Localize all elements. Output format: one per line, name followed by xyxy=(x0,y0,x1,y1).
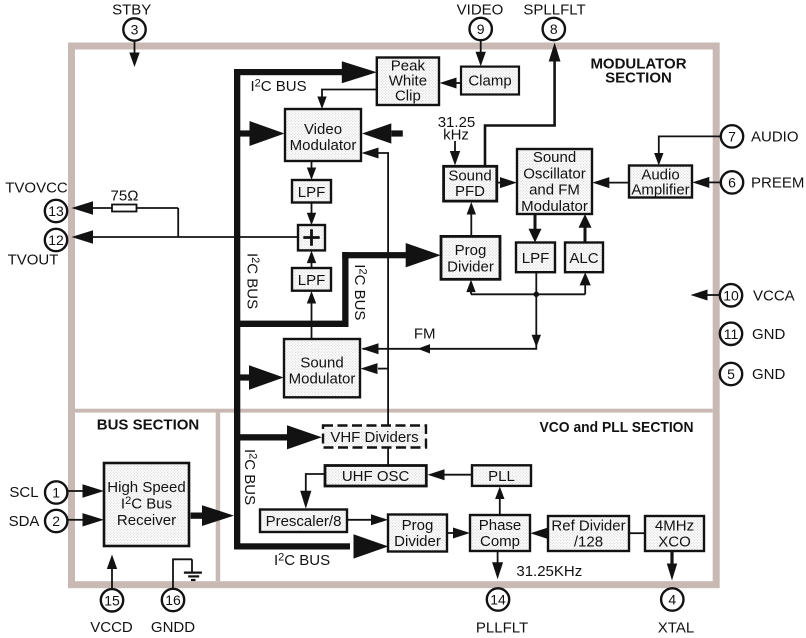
svg-text:Sound: Sound xyxy=(533,149,576,166)
wire: Sound PFD to Sound Oscillator xyxy=(497,182,501,184)
arrowhead: bus stub into Video Modulator right edge xyxy=(362,123,391,143)
block: 4MHz XCO xyxy=(645,516,704,551)
wire: 4MHz XCO to XTAL pin 4 (bold) xyxy=(670,551,673,566)
arrowhead: receiver output into trunk A xyxy=(202,505,234,526)
arrowhead: down into LPF top xyxy=(529,229,542,243)
arrowhead: Sound PFD into Sound Oscillator xyxy=(500,177,517,188)
wire: UHF OSC to Prescaler xyxy=(306,474,325,492)
svg-text:Video: Video xyxy=(304,121,342,138)
wire: I2C bus receiver output stub xyxy=(191,513,203,519)
arrowhead: into Prog Divider top bottom edge xyxy=(466,280,475,293)
arrowhead: Clamp into Peak White Clip xyxy=(440,78,457,89)
svg-text:I2C BUS: I2C BUS xyxy=(351,264,369,320)
pin 8 SPLLFLT xyxy=(523,2,585,41)
svg-text:I2C BUS: I2C BUS xyxy=(243,253,260,309)
svg-text:8: 8 xyxy=(550,21,558,37)
svg-text:VHF Dividers: VHF Dividers xyxy=(330,429,418,446)
svg-text:1: 1 xyxy=(52,485,60,501)
arrowhead: into adder top xyxy=(307,213,316,226)
svg-text:75Ω: 75Ω xyxy=(111,188,139,205)
pin 4 XTAL xyxy=(658,588,694,636)
arrowhead: Phase Comp down to pin 14 xyxy=(492,562,503,579)
svg-text:High Speed: High Speed xyxy=(107,479,185,496)
svg-text:Modulator: Modulator xyxy=(289,371,356,388)
arrowhead: down at FM corner xyxy=(532,335,541,348)
pin 16 GNDD xyxy=(151,589,195,636)
arrowhead: Ref Divider into Phase Comp xyxy=(530,528,547,539)
block: UHF OSC xyxy=(325,466,426,487)
wire: Phase Comp to PLL xyxy=(499,498,501,515)
block: Peak White Clip xyxy=(377,58,439,106)
svg-text:GNDD: GNDD xyxy=(151,619,195,636)
arrowhead: XCO down to pin 4 xyxy=(667,564,677,581)
wire: lower LPF to adder xyxy=(311,262,313,269)
arrowhead: FM mid-line left xyxy=(418,344,431,353)
svg-text:I2C BUS: I2C BUS xyxy=(251,78,307,96)
svg-text:TVOUT: TVOUT xyxy=(8,252,59,269)
wire: Prescaler to Prog Divider xyxy=(347,519,371,521)
wire: TVOVCC line with resistor branch xyxy=(92,208,178,237)
svg-text:Amplifier: Amplifier xyxy=(631,181,689,198)
pin 7 AUDIO xyxy=(721,125,799,147)
block: LPF lower xyxy=(292,268,331,291)
svg-text:Ref Divider: Ref Divider xyxy=(551,518,625,535)
pin 12 TVOUT xyxy=(8,229,68,269)
svg-text:Comp: Comp xyxy=(480,533,520,550)
svg-text:Oscillator: Oscillator xyxy=(523,165,586,182)
arrowhead: I2C bus into Prog Divider bottom xyxy=(354,534,389,558)
junction dot on feedback line xyxy=(534,292,540,298)
svg-text:VCCA: VCCA xyxy=(753,287,795,304)
arrowhead: carrier into Sound Modulator right xyxy=(361,363,378,374)
pin 15 VCCD xyxy=(90,589,133,636)
chip outline frame xyxy=(72,46,717,585)
wire: SDA pin 2 to receiver xyxy=(68,519,83,521)
arrowhead: Phase Comp into PLL bottom xyxy=(495,487,504,500)
block: adder xyxy=(298,225,325,250)
block: LPF sound xyxy=(516,243,555,273)
wire: STBY pin 3 into chip xyxy=(134,41,136,55)
arrowhead: into LPF top xyxy=(307,168,316,181)
wire: I2C bus trunk A vertical xyxy=(234,69,240,549)
arrowhead: I2C bus into Peak White Clip xyxy=(342,61,377,83)
wire: SPLLFLT from Sound PFD to pin 8 xyxy=(485,55,555,166)
wire: Sound Modulator to lower LPF xyxy=(311,303,313,340)
svg-text:Phase: Phase xyxy=(479,517,522,534)
wire: PREEM pin 6 to Audio Amplifier xyxy=(708,181,721,183)
arrowhead: pin 7 into Audio Amplifier top xyxy=(654,153,663,166)
block: PLL xyxy=(472,465,531,486)
wire: Ref Divider to 4MHz XCO xyxy=(629,532,645,534)
pin 14 PLLFLT xyxy=(476,588,528,636)
wire: Sound Oscillator to LPF (bold) xyxy=(534,214,537,230)
svg-text:14: 14 xyxy=(490,592,506,608)
svg-text:15: 15 xyxy=(104,592,120,608)
pin 9 VIDEO xyxy=(457,2,504,41)
wire: Phase Comp to PLLFLT pin 14 xyxy=(497,551,499,564)
svg-text:TVOVCC: TVOVCC xyxy=(5,180,68,197)
ground symbol for GNDD xyxy=(184,573,202,580)
svg-text:Prog: Prog xyxy=(455,242,487,259)
arrowhead: TVOVCC into pin 13 xyxy=(72,201,94,214)
svg-text:31.25KHz: 31.25KHz xyxy=(516,563,582,580)
wire: up into ALC bottom edge xyxy=(584,285,586,294)
wire: I2C bus stub into VHF Dividers xyxy=(240,434,287,440)
arrowhead: VCCD up into chip xyxy=(107,555,117,570)
pin 13 TVOVCC xyxy=(5,180,68,223)
svg-text:and FM: and FM xyxy=(529,182,580,199)
svg-text:VIDEO: VIDEO xyxy=(457,2,504,19)
arrowhead: PLL into UHF OSC xyxy=(428,469,445,480)
block: Prog Divider top xyxy=(441,236,500,279)
svg-text:/128: /128 xyxy=(574,534,603,551)
arrowhead: into adder bottom xyxy=(307,251,316,264)
svg-text:Modulator: Modulator xyxy=(290,137,357,154)
block: Sound Oscillator and FM Modulator xyxy=(517,149,592,215)
svg-text:GND: GND xyxy=(752,366,786,383)
wire: Prog Divider to Phase Comp xyxy=(447,532,453,534)
arrowhead: I2C bus into VHF Dividers xyxy=(287,425,322,449)
wire: up into Prog Divider bottom edge xyxy=(470,290,472,294)
arrowhead: Audio Amplifier into Sound Oscillator xyxy=(592,177,609,188)
arrowhead: I2C bus into Sound Modulator xyxy=(249,365,284,389)
pin 6 PREEM xyxy=(721,171,805,193)
svg-text:SECTION: SECTION xyxy=(605,70,672,87)
wire: I2C bus stub into Video Modulator xyxy=(240,130,251,136)
svg-text:SPLLFLT: SPLLFLT xyxy=(523,2,585,19)
svg-text:13: 13 xyxy=(48,203,64,219)
svg-text:VCO and PLL SECTION: VCO and PLL SECTION xyxy=(540,419,694,436)
wire: Peak White Clip to Video Modulator xyxy=(322,90,377,99)
arrowhead: carrier into Video Modulator right xyxy=(362,148,379,159)
pin 2 SDA xyxy=(9,510,68,532)
svg-text:XCO: XCO xyxy=(658,534,691,551)
wire: Ref Divider to Phase Comp xyxy=(547,532,549,534)
wire: VCCD pin 15 into chip xyxy=(111,567,113,589)
svg-text:PREEM: PREEM xyxy=(751,175,804,192)
svg-text:BUS SECTION: BUS SECTION xyxy=(97,417,200,434)
wire: VIDEO pin 9 to Clamp xyxy=(480,41,482,56)
wire: UHF OSC feedback line to modulators xyxy=(378,153,388,466)
block: Ref Divider /128 xyxy=(548,516,629,551)
resistor 75 ohm xyxy=(112,205,137,212)
pin 1 SCL xyxy=(9,481,67,503)
svg-text:10: 10 xyxy=(723,287,739,303)
svg-text:Modulator: Modulator xyxy=(521,198,588,215)
block: ALC xyxy=(565,243,603,273)
arrowhead: I2C bus into Prog Divider top xyxy=(406,243,441,267)
arrowhead: TVOUT into pin 12 xyxy=(72,230,94,243)
section divider vertical xyxy=(216,413,221,581)
arrowhead: into ALC bottom edge xyxy=(580,272,591,285)
svg-text:LPF: LPF xyxy=(522,250,550,267)
arrowhead: into lower LPF bottom xyxy=(307,291,316,304)
svg-text:16: 16 xyxy=(165,592,181,608)
svg-text:ALC: ALC xyxy=(569,250,598,267)
wire: PLL to UHF OSC xyxy=(445,474,473,476)
block: Prog Divider bottom xyxy=(388,515,447,552)
block: Video Modulator U-VM xyxy=(285,109,361,161)
wire: SCL pin 1 to receiver xyxy=(68,490,83,492)
arrowhead: pin 6 into Audio Amplifier right xyxy=(692,177,709,188)
svg-text:Prescaler/8: Prescaler/8 xyxy=(266,513,342,530)
pin 3 STBY xyxy=(112,2,151,41)
svg-text:PLL: PLL xyxy=(488,468,515,485)
svg-text:Divider: Divider xyxy=(394,533,441,550)
svg-text:kHz: kHz xyxy=(443,127,469,144)
wire: I2C bus top bar to Peak White Clip xyxy=(234,69,342,75)
svg-text:STBY: STBY xyxy=(112,2,151,19)
svg-text:7: 7 xyxy=(728,128,736,144)
pin 5 GND xyxy=(720,363,786,385)
svg-text:2: 2 xyxy=(52,513,60,529)
svg-text:11: 11 xyxy=(724,326,739,342)
block: Phase Comp xyxy=(470,515,530,551)
block: Clamp xyxy=(461,67,519,95)
svg-text:Clip: Clip xyxy=(395,88,421,105)
svg-text:XTAL: XTAL xyxy=(658,620,694,637)
wire: ALC to Sound Oscillator (bold) xyxy=(584,228,587,243)
block: Audio Amplifier xyxy=(629,166,692,199)
pin 11 GND xyxy=(720,323,786,345)
svg-text:9: 9 xyxy=(477,21,485,37)
svg-text:SCL: SCL xyxy=(9,484,38,501)
svg-text:4: 4 xyxy=(668,592,676,608)
svg-text:Receiver: Receiver xyxy=(117,512,176,529)
arrowhead: SDA into receiver xyxy=(83,513,105,526)
section title MODULATOR SECTION xyxy=(590,56,686,87)
svg-text:FM: FM xyxy=(414,326,436,343)
arrowhead: SCL into receiver xyxy=(83,484,105,497)
wire: LPF output down and FM line left xyxy=(363,272,537,349)
arrowhead: SPLLFLT up into pin 8 xyxy=(549,43,561,62)
block: Sound PFD xyxy=(444,166,497,201)
arrowhead: FM into Sound Modulator right xyxy=(362,343,379,354)
svg-text:AUDIO: AUDIO xyxy=(751,129,799,146)
wire: I2C bus bottom bar xyxy=(234,543,350,549)
svg-text:UHF OSC: UHF OSC xyxy=(342,468,410,485)
block: Prescaler/8 xyxy=(260,510,347,533)
svg-text:LPF: LPF xyxy=(298,272,326,289)
wire: 31.25 kHz into Sound PFD xyxy=(454,141,456,153)
block: Sound Modulator xyxy=(284,339,360,397)
svg-text:I2C BUS: I2C BUS xyxy=(274,552,330,570)
arrowhead: I2C bus into Video Modulator xyxy=(250,121,285,146)
wire: Audio Amplifier to Sound Oscillator xyxy=(608,182,629,184)
block: High Speed I2C Bus Receiver xyxy=(104,463,189,546)
block: VHF Dividers (dashed) xyxy=(323,426,426,448)
svg-text:Prog: Prog xyxy=(402,517,434,534)
pin 10 VCCA xyxy=(720,284,795,306)
wire: I2C bus trunk B top bar xyxy=(342,252,406,258)
section divider horizontal xyxy=(75,409,713,413)
svg-text:Clamp: Clamp xyxy=(468,73,511,90)
arrowhead: into Sound PFD bottom xyxy=(467,202,476,215)
wire: Video Modulator to LPF xyxy=(311,161,313,169)
arrowhead: Prescaler into Prog Divider xyxy=(371,514,388,525)
svg-text:5: 5 xyxy=(727,366,735,382)
wire: I2C bus trunk B vertical xyxy=(342,252,348,327)
svg-text:VCCD: VCCD xyxy=(90,619,133,636)
svg-text:Sound: Sound xyxy=(300,355,343,372)
svg-text:PLLFLT: PLLFLT xyxy=(476,620,528,637)
wire: GNDD pin 16 to ground xyxy=(173,559,192,588)
arrowhead: STBY down into chip xyxy=(129,53,139,68)
arrowhead: VCCA pin 10 into chip xyxy=(691,290,708,301)
svg-text:LPF: LPF xyxy=(298,184,326,201)
wire: I2C bus connector A to B xyxy=(234,321,349,327)
wire: carrier stub into Sound Modulator xyxy=(378,368,388,370)
wire: Clamp to Peak White Clip xyxy=(455,82,461,84)
svg-text:PFD: PFD xyxy=(455,183,485,200)
wire: feedback line below LPF and ALC xyxy=(471,293,585,295)
arrowhead: down into Video Modulator top xyxy=(317,97,326,110)
arrowhead: up into Sound Oscillator bottom xyxy=(579,214,592,228)
wire: carrier bus stub into Video Modulator right xyxy=(391,130,403,136)
block: LPF upper xyxy=(292,180,331,203)
wire: Prog Divider top to Sound PFD xyxy=(470,213,472,236)
svg-text:4MHz: 4MHz xyxy=(655,518,694,535)
wire: TVOUT line from adder xyxy=(92,236,298,238)
svg-text:3: 3 xyxy=(131,22,139,38)
arrowhead: Prog Divider into Phase Comp xyxy=(453,528,470,539)
svg-text:Divider: Divider xyxy=(447,258,494,275)
svg-text:12: 12 xyxy=(48,232,64,248)
svg-text:GND: GND xyxy=(752,326,786,343)
svg-text:SDA: SDA xyxy=(9,513,40,530)
svg-text:6: 6 xyxy=(728,174,736,190)
wire: I2C bus stub into Sound Modulator xyxy=(240,374,251,380)
arrowhead: down into Prescaler top xyxy=(300,491,311,509)
wire: AUDIO pin 7 to Audio Amplifier xyxy=(659,136,722,154)
svg-text:I2C BUS: I2C BUS xyxy=(241,449,259,505)
wire: LPF to adder xyxy=(311,203,313,215)
arrowhead: VIDEO into Clamp xyxy=(476,52,486,67)
svg-text:Sound: Sound xyxy=(448,167,491,184)
wire: VCCA pin 10 arrow line xyxy=(706,294,720,296)
arrowhead: 31.25kHz into Sound PFD xyxy=(450,151,460,166)
